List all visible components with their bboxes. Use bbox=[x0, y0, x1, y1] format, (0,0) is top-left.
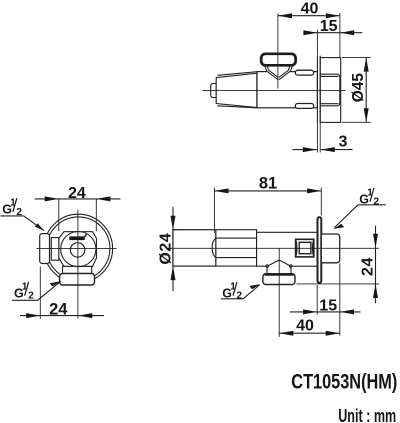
body right section bbox=[257, 232, 318, 266]
dim 24 right bbox=[375, 226, 377, 304]
G1/2 bottom-left leader bbox=[12, 281, 61, 300]
left outlet bbox=[40, 234, 50, 264]
svg-text:2: 2 bbox=[28, 291, 34, 302]
svg-text:CT1053N(HM): CT1053N(HM) bbox=[291, 369, 397, 393]
dim 24 bottom line bbox=[20, 315, 104, 317]
centerline horizontal top view bbox=[203, 89, 346, 91]
shank inner lines bbox=[320, 76, 338, 103]
dim O24 left bbox=[172, 207, 174, 291]
boss top bbox=[295, 70, 313, 75]
outlet trapezoid erase bbox=[267, 260, 291, 267]
svg-text:Ø45: Ø45 bbox=[350, 73, 367, 103]
svg-text:40: 40 bbox=[296, 318, 314, 335]
wall plate edge lines bbox=[317, 56, 320, 123]
valve main block bbox=[257, 72, 317, 108]
trapezoid corner dots bbox=[266, 265, 269, 268]
dim 24 top line bbox=[35, 198, 121, 200]
hex nut section bbox=[216, 230, 257, 266]
dim O45 bbox=[365, 58, 367, 123]
nut behind plate bbox=[321, 234, 339, 263]
cone highlight top bbox=[217, 72, 257, 76]
front view vertical centerline bbox=[77, 210, 79, 319]
svg-text:40: 40 bbox=[301, 1, 319, 18]
stem circle bbox=[70, 243, 84, 257]
G1/2 top-left leader bbox=[1, 216, 45, 231]
stem knob inner bbox=[299, 242, 311, 253]
dim 81 bbox=[214, 190, 321, 192]
dim 40 top bbox=[278, 15, 340, 17]
escutcheon cup bbox=[320, 58, 341, 123]
left outlet neck bbox=[51, 238, 59, 261]
svg-text:Unit : mm: Unit : mm bbox=[338, 406, 396, 423]
plate extension lines for dim 3 bbox=[317, 123, 320, 153]
dim 3 bbox=[293, 149, 353, 151]
inlet shank bbox=[320, 74, 340, 106]
valve body tip cap bbox=[211, 83, 217, 97]
handle bar bbox=[69, 236, 85, 240]
handle cap bbox=[261, 54, 295, 66]
dim 40 bottom bbox=[279, 332, 340, 334]
bottom view centerline bbox=[168, 247, 379, 249]
svg-text:81: 81 bbox=[259, 174, 277, 192]
cone highlight bottom bbox=[217, 106, 257, 108]
label G1/2 bottom-mid bbox=[222, 281, 242, 301]
stem knob concave sides bbox=[296, 239, 314, 257]
svg-text:2: 2 bbox=[237, 291, 243, 302]
handle funnel erase bbox=[264, 65, 293, 80]
escutcheon inner circle bbox=[47, 217, 110, 280]
bonnet circle bbox=[61, 232, 96, 267]
hex chamfer arc bbox=[212, 238, 216, 258]
outlet nut bottom view bbox=[263, 274, 295, 285]
svg-text:2: 2 bbox=[374, 197, 380, 208]
outlet trapezoid bbox=[267, 260, 291, 266]
ext line for 15 at plate bbox=[316, 30, 318, 56]
dim 15 top bbox=[304, 32, 363, 34]
escutcheon outer circle bbox=[44, 214, 113, 283]
label G1/2 top-left bbox=[2, 197, 22, 217]
svg-text:24: 24 bbox=[49, 301, 68, 319]
svg-text:2: 2 bbox=[16, 207, 22, 218]
bottom outlet neck bbox=[63, 266, 92, 273]
dim 24 top: ext lines bbox=[59, 199, 97, 231]
handle funnel strokes bbox=[264, 65, 278, 80]
dim 15 bottom bbox=[290, 311, 361, 313]
outlet centerline bbox=[278, 248, 280, 337]
wall plate stadium bbox=[318, 217, 322, 283]
G1/2 bottom leader (bottom view) bbox=[221, 285, 260, 299]
svg-text:Ø24: Ø24 bbox=[158, 233, 175, 265]
handle centerline / extension bbox=[277, 14, 279, 89]
label G1/2 bottom-left bbox=[14, 281, 34, 301]
svg-text:24: 24 bbox=[360, 257, 377, 276]
svg-text:15: 15 bbox=[319, 297, 337, 314]
ext line right for 40/15 bbox=[339, 13, 341, 57]
bottom outlet nut bbox=[60, 274, 95, 286]
dim 24 bottom: ext line bbox=[39, 267, 41, 319]
G1/2 top-right leader bbox=[335, 205, 386, 228]
chamfered square body bbox=[59, 232, 97, 267]
boss bottom bbox=[295, 104, 313, 109]
svg-text:3: 3 bbox=[339, 133, 348, 150]
body left rect bbox=[173, 230, 216, 266]
hex flats bbox=[216, 238, 257, 258]
svg-text:24: 24 bbox=[68, 185, 86, 202]
valve body cone section bbox=[216, 73, 257, 107]
label G1/2 top-right bbox=[359, 187, 379, 207]
front view horizontal centerline bbox=[37, 248, 117, 250]
svg-text:15: 15 bbox=[320, 18, 338, 35]
stem knob outer bbox=[296, 239, 314, 257]
